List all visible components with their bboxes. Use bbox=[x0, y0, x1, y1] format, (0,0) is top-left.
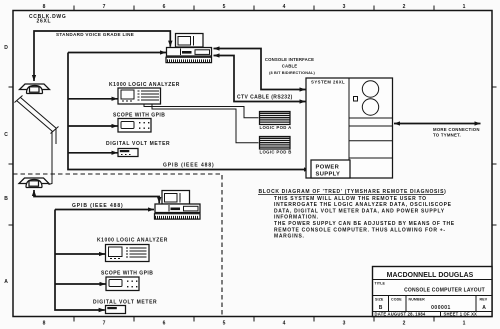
svg-text:GPIB (IEEE 488): GPIB (IEEE 488) bbox=[72, 203, 124, 209]
svg-text:MARGINS.: MARGINS. bbox=[274, 234, 305, 240]
wire: bus branch to logic analyzer bbox=[68, 98, 118, 100]
svg-text:CONSOLE INTERFACE: CONSOLE INTERFACE bbox=[265, 57, 314, 62]
svg-text:A: A bbox=[4, 279, 8, 285]
oscilloscope (lower) bbox=[106, 277, 139, 291]
svg-text:SIZE: SIZE bbox=[375, 297, 384, 301]
remote console computer: system unit bbox=[155, 204, 200, 213]
wire: standard voice grade line (phone to console computer) bbox=[34, 31, 170, 81]
svg-text:8: 8 bbox=[43, 4, 46, 10]
svg-text:DIGITAL VOLT METER: DIGITAL VOLT METER bbox=[93, 299, 157, 305]
svg-text:7: 7 bbox=[103, 321, 106, 327]
tape reel lower bbox=[362, 99, 378, 115]
svg-text:1: 1 bbox=[463, 321, 466, 327]
zone ticks left bbox=[9, 87, 14, 225]
wire: bus branch to volt meter bbox=[68, 152, 118, 154]
digital volt meter (lower) bbox=[106, 306, 126, 314]
remote console computer: keyboard bbox=[155, 214, 201, 219]
svg-text:MORE CONNECTION: MORE CONNECTION bbox=[433, 127, 480, 132]
svg-text:DATE AUGUST 28, 1984: DATE AUGUST 28, 1984 bbox=[375, 312, 426, 317]
svg-text:26XL: 26XL bbox=[37, 19, 52, 25]
svg-text:3: 3 bbox=[343, 4, 346, 10]
svg-text:4: 4 bbox=[283, 4, 286, 10]
svg-text:B: B bbox=[379, 305, 383, 311]
wire: analyzer pod cable B bbox=[152, 104, 259, 143]
label CONSOLE INTERFACE CABLE (8 BIT BIDIRECTIONAL) bbox=[265, 57, 316, 75]
system 26XL cabinet bbox=[306, 78, 393, 178]
console computer (top): keyboard bbox=[166, 57, 212, 62]
svg-text:5: 5 bbox=[223, 4, 226, 10]
power supply box bbox=[311, 160, 350, 178]
wire: branch to lower logic analyzer bbox=[55, 253, 105, 255]
zone ticks right bbox=[492, 87, 497, 225]
logic pod A bbox=[260, 112, 291, 125]
wire: CTV cable (RS232) bbox=[214, 56, 306, 102]
svg-text:D: D bbox=[4, 45, 8, 51]
wire: GPIB bus to console computer bbox=[68, 52, 166, 54]
title block bbox=[373, 267, 493, 317]
svg-text:BLOCK DIAGRAM OF 'TRED' (TYMSH: BLOCK DIAGRAM OF 'TRED' (TYMSHARE REMOTE… bbox=[259, 189, 447, 195]
label CCBLK.DWG 26XL bbox=[29, 14, 66, 25]
svg-text:C: C bbox=[4, 132, 8, 138]
size / code / number / rev row bbox=[375, 297, 488, 301]
block description body bbox=[274, 196, 455, 240]
svg-text:CONSOLE COMPUTER LAYOUT: CONSOLE COMPUTER LAYOUT bbox=[404, 288, 485, 294]
svg-text:LOGIC POD A: LOGIC POD A bbox=[260, 125, 292, 130]
svg-text:K1000 LOGIC ANALYZER: K1000 LOGIC ANALYZER bbox=[97, 237, 168, 243]
wire: bus branch to scope bbox=[68, 125, 118, 127]
svg-text:CODE: CODE bbox=[391, 297, 402, 301]
svg-text:2: 2 bbox=[403, 321, 406, 327]
svg-text:THE POWER SUPPLY CAN BE ADJUST: THE POWER SUPPLY CAN BE ADJUSTED BY MEAN… bbox=[274, 221, 455, 227]
oscilloscope (upper) bbox=[118, 119, 151, 133]
wire: lower GPIB bus to remote computer bbox=[55, 209, 154, 211]
svg-text:THIS SYSTEM WILL ALLOW THE REM: THIS SYSTEM WILL ALLOW THE REMOTE USER T… bbox=[274, 196, 427, 202]
svg-text:MACDONNELL DOUGLAS: MACDONNELL DOUGLAS bbox=[387, 272, 474, 279]
zone letters left bbox=[4, 45, 8, 285]
svg-text:8: 8 bbox=[43, 321, 46, 327]
svg-text:DIGITAL VOLT METER: DIGITAL VOLT METER bbox=[106, 141, 170, 147]
svg-text:TO TYMNET.: TO TYMNET. bbox=[433, 133, 461, 138]
svg-text:7: 7 bbox=[103, 4, 106, 10]
svg-text:REV: REV bbox=[480, 297, 488, 301]
svg-text:1: 1 bbox=[463, 4, 466, 10]
svg-text:5: 5 bbox=[223, 321, 226, 327]
svg-text:6: 6 bbox=[163, 4, 166, 10]
svg-text:NUMBER: NUMBER bbox=[409, 297, 426, 301]
svg-text:2: 2 bbox=[403, 4, 406, 10]
logic analyzer (upper) bbox=[118, 88, 161, 104]
zone numbers bottom bbox=[43, 321, 466, 327]
wire: lower GPIB bus vertical bbox=[55, 210, 105, 311]
svg-text:SCOPE WITH GPIB: SCOPE WITH GPIB bbox=[113, 113, 165, 119]
wire: connection to TYMNET (double arrow) bbox=[394, 123, 481, 125]
logic analyzer (lower) bbox=[106, 245, 150, 262]
svg-text:3: 3 bbox=[343, 321, 346, 327]
wire: GPIB instrument bus (vertical) and run to power supply bbox=[68, 53, 310, 170]
svg-text:4: 4 bbox=[283, 321, 286, 327]
svg-text:INFORMATION.: INFORMATION. bbox=[274, 215, 319, 221]
console computer (top): monitor bbox=[176, 34, 204, 48]
svg-text:A: A bbox=[482, 305, 486, 311]
zone numbers top bbox=[43, 4, 466, 10]
svg-text:CABLE: CABLE bbox=[282, 63, 298, 68]
svg-text:POWER: POWER bbox=[316, 164, 340, 170]
wire: console interface cable bbox=[214, 49, 306, 90]
svg-text:LOGIC POD B: LOGIC POD B bbox=[260, 150, 292, 155]
svg-text:(8 BIT BIDIRECTIONAL): (8 BIT BIDIRECTIONAL) bbox=[269, 71, 315, 75]
wire: analyzer pod cable A bbox=[144, 104, 259, 118]
svg-text:REMOTE CONSOLE COMPUTER. THUS: REMOTE CONSOLE COMPUTER. THUS ALLOWING F… bbox=[274, 227, 446, 233]
svg-text:000001: 000001 bbox=[431, 305, 451, 311]
svg-text:SYSTEM 26XL: SYSTEM 26XL bbox=[311, 80, 345, 85]
svg-text:6: 6 bbox=[163, 321, 166, 327]
wire: phone line pair (diagonal run between sites) bbox=[15, 96, 59, 185]
tape reel upper bbox=[362, 81, 378, 97]
wire: phone to remote console computer bbox=[34, 190, 159, 203]
wire: branch to lower scope bbox=[55, 283, 106, 285]
logic pod B bbox=[260, 137, 291, 150]
zone ticks top bbox=[74, 6, 434, 11]
svg-text:SUPPLY: SUPPLY bbox=[316, 172, 341, 178]
remote console computer: monitor bbox=[162, 191, 190, 205]
telephone (on-site phone, bottom) bbox=[19, 178, 49, 188]
console computer (top): system unit bbox=[167, 48, 212, 57]
dashed remote-site boundary bbox=[13, 174, 222, 316]
svg-text:GPIB (IEEE 488): GPIB (IEEE 488) bbox=[163, 162, 215, 168]
svg-text:SCOPE WITH GPIB: SCOPE WITH GPIB bbox=[101, 270, 153, 276]
svg-text:K1000 LOGIC ANALYZER: K1000 LOGIC ANALYZER bbox=[109, 82, 180, 88]
zone ticks bottom bbox=[74, 317, 434, 322]
svg-text:SHEET 1 OF XX: SHEET 1 OF XX bbox=[444, 312, 478, 317]
svg-text:STANDARD VOICE GRADE LINE: STANDARD VOICE GRADE LINE bbox=[56, 32, 134, 37]
svg-text:CTV CABLE (RS232): CTV CABLE (RS232) bbox=[237, 95, 293, 101]
svg-text:B: B bbox=[4, 196, 8, 202]
svg-text:DATA, DIGITAL VOLT METER DATA,: DATA, DIGITAL VOLT METER DATA, AND POWER… bbox=[274, 208, 445, 214]
telephone (remote user modem phone, top) bbox=[20, 84, 50, 94]
digital volt meter (upper) bbox=[118, 149, 138, 157]
svg-text:TITLE: TITLE bbox=[375, 282, 386, 286]
svg-text:INTERROGATE THE LOGIC ANALYZER: INTERROGATE THE LOGIC ANALYZER DATA, OSC… bbox=[274, 202, 452, 208]
